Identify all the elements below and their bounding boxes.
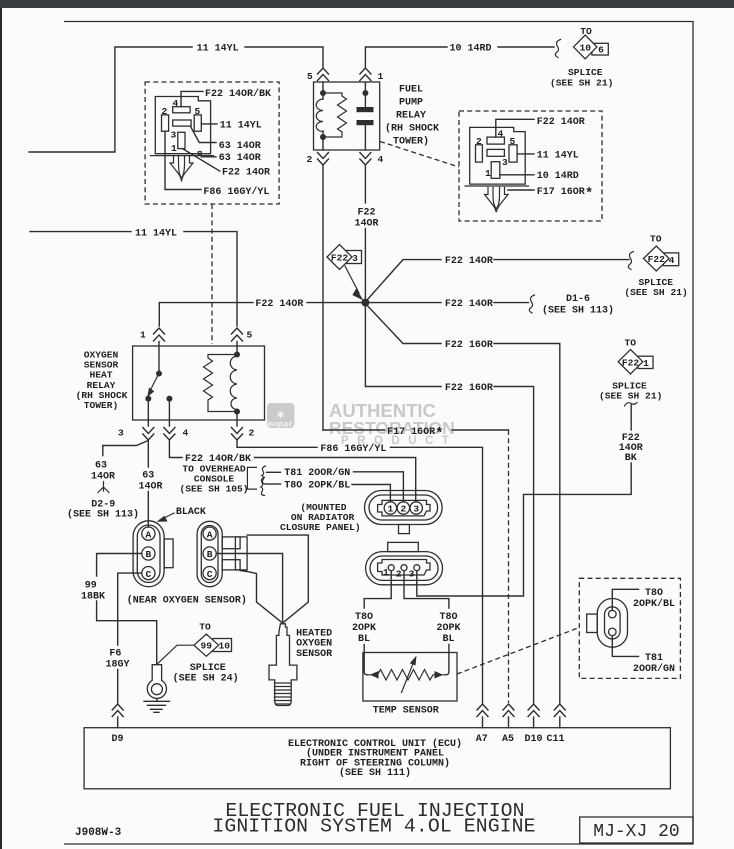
svg-text:mopar: mopar <box>268 420 294 430</box>
oxygen relay pin 2 chevron <box>232 428 243 441</box>
oxygen sensor connector pin B <box>203 547 216 560</box>
radiator sensor connector shell <box>366 552 443 585</box>
svg-text:1: 1 <box>383 567 389 578</box>
temp connector wire T80 <box>612 589 638 610</box>
fuel pump relay contact to box bottom <box>364 125 366 150</box>
wire pin3 branch to D2-9 <box>103 441 149 456</box>
oxygen sensor connector pin C <box>203 567 216 580</box>
svg-text:63: 63 <box>142 471 154 482</box>
svg-text:(SEE SH 21): (SEE SH 21) <box>624 287 687 298</box>
svg-text:11 14YL: 11 14YL <box>197 44 239 55</box>
splice F22-4 squiggle <box>628 252 633 270</box>
overhead console squiggle 2 <box>261 478 265 496</box>
radiator sensor pin 2 <box>401 565 407 571</box>
box1 pin 2 terminal <box>162 115 169 131</box>
wire sensor B <box>216 554 282 622</box>
svg-text:3: 3 <box>409 569 415 580</box>
svg-text:4: 4 <box>378 154 384 165</box>
svg-text:TOWER): TOWER) <box>393 136 429 148</box>
svg-text:BL: BL <box>358 634 370 645</box>
svg-text:2: 2 <box>307 154 313 165</box>
watermark AUTHENTIC RESTORATION PRODUCT <box>329 400 457 447</box>
fuel pump relay coil to box bottom <box>322 131 324 150</box>
svg-text:F6: F6 <box>109 649 121 660</box>
svg-text:A7: A7 <box>476 734 488 745</box>
svg-text:F22 14OR: F22 14OR <box>255 299 303 310</box>
temp connector shell <box>597 599 627 648</box>
wire to D1-6 <box>494 302 529 304</box>
box1 wire to F86 16GY/YL <box>165 131 201 189</box>
splice F22-3 diamond <box>327 245 352 270</box>
wire T80 to radiator pin 1 <box>352 485 390 502</box>
oxygen sensor connector pin A <box>203 527 216 540</box>
svg-text:T8O: T8O <box>355 612 373 623</box>
fuel pump relay resistor branch <box>323 93 347 137</box>
splice F22-3 box 3 <box>346 251 362 264</box>
box1 wire to 63 140R second <box>201 156 216 158</box>
svg-text:4: 4 <box>669 255 675 266</box>
temp connector dashed box <box>579 578 680 678</box>
svg-text:(RH SHOCK: (RH SHOCK <box>385 123 439 135</box>
svg-text:A: A <box>146 529 152 540</box>
svg-text:TO: TO <box>199 622 211 633</box>
fuel pump relay pin 1 chevron <box>360 68 371 81</box>
oxygen relay box <box>133 346 265 420</box>
svg-text:1: 1 <box>485 168 491 179</box>
fuel pump relay contact bar 1 <box>357 107 374 112</box>
wire F22 140R left of junction <box>159 302 253 304</box>
svg-text:SPLICE: SPLICE <box>190 663 226 674</box>
svg-text:T81: T81 <box>645 653 663 664</box>
svg-text:4: 4 <box>498 129 504 140</box>
svg-text:RELAY: RELAY <box>396 111 426 122</box>
wire T80 20PK/BL dash <box>267 483 281 485</box>
wire F17 160R* horizontal <box>323 429 385 431</box>
svg-text:F22: F22 <box>357 207 375 218</box>
oxygen relay pin4 stub <box>168 400 170 426</box>
oxygen sensor connector shell (right) <box>197 521 222 586</box>
splice F22-1 diamond <box>618 350 643 375</box>
radiator sensor pin 1 <box>388 565 394 571</box>
splice 99-10 lead to ring terminal <box>158 645 195 664</box>
wire junction down <box>365 306 441 387</box>
box1 wire to F22 140R <box>183 149 220 172</box>
oxygen relay pin 3 chevron <box>143 428 154 441</box>
svg-text:TO: TO <box>625 338 637 349</box>
wire D10 into ECU <box>533 717 535 728</box>
oxygen relay coil feed <box>236 342 238 357</box>
wire F22 140R BK down and left <box>417 463 631 596</box>
splice 10-6 diamond <box>574 35 597 59</box>
near oxygen sensor pin C <box>142 567 155 580</box>
ground symbol <box>144 699 170 713</box>
splice 99-10 diamond <box>194 634 219 656</box>
radiator sensor pin 3 <box>414 565 420 571</box>
splice F22-3 arrow to junction <box>345 266 359 293</box>
fuel pump relay coil bottom junction <box>320 134 326 140</box>
wire label to junction <box>307 302 362 304</box>
radiator harness tab <box>399 525 410 534</box>
svg-text:10: 10 <box>219 641 231 652</box>
relay connector body (box2) <box>470 127 526 184</box>
svg-text:63 14OR: 63 14OR <box>219 141 261 152</box>
radiator harness pin 1 <box>384 502 396 514</box>
svg-text:F22 14OR: F22 14OR <box>445 256 493 267</box>
fuel pump relay pin 2 chevron <box>318 153 329 166</box>
svg-text:4: 4 <box>183 428 189 439</box>
radiator sensor connector key <box>378 560 430 576</box>
svg-text:(SEE SH 113): (SEE SH 113) <box>542 304 614 316</box>
near oxygen sensor connector tab <box>164 539 173 568</box>
wire T81 to radiator pin 2 <box>354 472 404 501</box>
wire F86 16GY/YL to A7 drop <box>391 447 483 703</box>
box2 center terminal <box>487 149 504 156</box>
temp connector pin 2 <box>609 628 617 636</box>
svg-text:BL: BL <box>443 634 455 645</box>
svg-text:F22 14OR: F22 14OR <box>445 299 493 310</box>
box1 mounting clip <box>170 156 193 181</box>
box2 bottom flange <box>465 185 529 187</box>
D10 chevron <box>528 704 539 717</box>
top dark browser bar <box>0 0 734 8</box>
fuel pump relay pin 4 chevron <box>360 153 371 166</box>
svg-text:2OOR/GN: 2OOR/GN <box>633 663 675 675</box>
splice 99-10 box 10 <box>213 639 232 652</box>
relay connector body (box1) <box>155 97 210 154</box>
box1 bottom flange <box>151 155 214 157</box>
svg-text:99: 99 <box>201 641 213 652</box>
main junction node <box>361 299 369 307</box>
svg-text:3: 3 <box>118 428 124 439</box>
wire 11 14YL to fuel pump relay pin 5 <box>245 47 323 67</box>
wire F22 160R to D10 drop <box>494 387 534 704</box>
dashed lead to temp sensor connector box <box>457 628 579 675</box>
radiator harness pin 3 <box>410 502 422 514</box>
svg-text:(SEE SH 24): (SEE SH 24) <box>173 672 239 684</box>
fuel pump relay coil <box>316 99 323 132</box>
svg-text:14OR: 14OR <box>354 218 378 229</box>
svg-text:B: B <box>207 549 213 560</box>
fuel pump relay pin 1 wire to 10 14RD <box>365 47 447 67</box>
svg-text:IGNITION SYSTEM 4.OL ENGINE: IGNITION SYSTEM 4.OL ENGINE <box>212 816 535 838</box>
svg-text:A5: A5 <box>502 734 514 745</box>
overhead console bracket <box>247 467 256 489</box>
temp connector tab <box>587 614 598 632</box>
svg-text:(SEE SH 21): (SEE SH 21) <box>550 77 613 88</box>
box1 center terminal <box>173 120 191 126</box>
wire A7 into ECU <box>482 717 484 728</box>
sheet box MJ-XJ 20 <box>580 817 693 843</box>
box1 pin 5 terminal <box>194 115 201 131</box>
svg-text:T81 2OOR/GN: T81 2OOR/GN <box>284 467 350 479</box>
svg-text:5: 5 <box>247 330 253 341</box>
wire D9 into ECU <box>117 717 119 728</box>
connector box 2 (dashed) <box>459 111 602 221</box>
wire F6 18GY to D9 <box>117 670 119 704</box>
svg-text:TO: TO <box>580 26 592 37</box>
watermark mopar logo box <box>267 403 295 430</box>
fuel pump relay contact junction <box>362 90 368 96</box>
wire F17 160R* to A5 dashed drop <box>452 429 509 431</box>
svg-text:D9: D9 <box>112 734 124 745</box>
svg-text:TO: TO <box>650 234 662 245</box>
temp sensor box <box>363 653 457 702</box>
fuel pump relay coil branch <box>322 82 324 99</box>
svg-text:3: 3 <box>171 130 177 141</box>
box1 wire to F22 140R/BK <box>181 91 203 106</box>
ECU box <box>84 728 670 789</box>
svg-text:PUMP: PUMP <box>399 98 423 109</box>
svg-text:99: 99 <box>85 581 97 592</box>
svg-text:11 14YL: 11 14YL <box>135 229 177 240</box>
wire sensor A <box>247 535 308 622</box>
svg-text:2OPK: 2OPK <box>437 623 461 634</box>
splice F22-1 squiggle <box>625 403 638 407</box>
near oxygen sensor connector shell <box>133 521 164 587</box>
svg-text:18BK: 18BK <box>81 592 105 603</box>
svg-text:11 14YL: 11 14YL <box>220 120 262 131</box>
svg-text:C: C <box>207 569 213 580</box>
svg-text:5: 5 <box>307 71 313 82</box>
dashed link fuel pump relay to box2 <box>380 142 459 168</box>
svg-text:TEMP SENSOR: TEMP SENSOR <box>373 706 439 717</box>
svg-text:63 14OR: 63 14OR <box>219 153 261 164</box>
wire pin B to 99 18BK <box>97 554 142 577</box>
svg-text:T8O: T8O <box>645 588 663 599</box>
svg-text:F86 16GY/YL: F86 16GY/YL <box>320 443 386 455</box>
svg-text:SENSOR: SENSOR <box>296 649 332 660</box>
wire sensor pin1 to temp sensor <box>364 571 391 608</box>
BLACK arrow <box>163 513 174 519</box>
svg-text:F22 14OR: F22 14OR <box>537 117 585 128</box>
wire sensor pin2 to temp sensor <box>404 571 449 608</box>
oxygen relay pin 1 chevron <box>154 328 165 341</box>
D2-9 fork symbol <box>98 482 109 493</box>
svg-text:F22 14OR/BK: F22 14OR/BK <box>205 88 271 100</box>
temp connector pin 1 <box>609 610 617 618</box>
svg-text:F22: F22 <box>648 254 666 265</box>
svg-text:(SEE SH 111): (SEE SH 111) <box>339 767 411 779</box>
box1 pin 4 terminal <box>173 107 190 113</box>
splice F22-1 box 1 <box>638 356 653 368</box>
box2 wire to 10 14RD <box>500 174 534 176</box>
wire into temp sensor right <box>446 645 449 675</box>
wire 63 140R to pin A <box>147 492 149 528</box>
svg-text:3: 3 <box>413 504 419 515</box>
box2 wire to F17 160R <box>508 189 534 191</box>
wire T81 200R/GN dash <box>267 471 281 473</box>
oxygen relay switch feed <box>158 342 160 372</box>
dashed link box1 to oxygen relay <box>211 204 213 344</box>
wire oxygen relay pin1 riser <box>158 303 160 326</box>
oxygen relay switch top contact <box>156 371 162 377</box>
oxygen relay switch pin3 contact <box>145 396 151 402</box>
svg-text:3: 3 <box>352 253 358 264</box>
svg-text:C: C <box>146 569 152 580</box>
box2 wire to 11 14YL <box>517 153 534 155</box>
oxygen relay switch pin4 contact <box>166 396 172 402</box>
C11 chevron <box>554 704 565 717</box>
temp sensor arrow tips <box>370 671 379 679</box>
wire sensor pin3 right <box>416 571 418 596</box>
svg-text:2OPK/BL: 2OPK/BL <box>633 598 675 610</box>
svg-text:T8O 2OPK/BL: T8O 2OPK/BL <box>284 479 350 491</box>
wire fuel pump pin4 to label <box>364 166 366 204</box>
svg-text:(NEAR OXYGEN SENSOR): (NEAR OXYGEN SENSOR) <box>127 595 247 607</box>
oxygen relay coil <box>230 356 237 410</box>
svg-text:CLOSURE PANEL): CLOSURE PANEL) <box>280 522 361 533</box>
splice 10-6 box 6 <box>592 43 608 55</box>
wire F17 from fuel pump relay pin 2 down <box>322 166 324 431</box>
oxygen relay resistor loop <box>204 355 238 412</box>
svg-text:F22 16OR: F22 16OR <box>445 383 493 394</box>
svg-text:14OR: 14OR <box>139 482 163 493</box>
D9 chevron <box>112 704 123 717</box>
svg-text:TOWER): TOWER) <box>84 400 119 411</box>
connector box 1 (dashed) <box>145 82 279 204</box>
svg-text:C11: C11 <box>547 734 565 745</box>
svg-text:D10: D10 <box>525 734 543 745</box>
splice F22-4 box 4 <box>663 253 678 266</box>
wire F22 140R BK from splice down <box>630 405 632 430</box>
svg-text:F22 16OR: F22 16OR <box>445 340 493 351</box>
box2 pin 4 terminal <box>487 137 504 144</box>
svg-text:D1-6: D1-6 <box>566 294 590 305</box>
radiator harness connector shell <box>365 491 443 525</box>
fuel pump relay box <box>314 82 380 150</box>
oxygen relay pin2 stub <box>236 412 238 427</box>
fuel pump relay contact bar 2 <box>357 120 374 125</box>
temp connector wire T81 <box>612 636 638 657</box>
svg-text:J908W-3: J908W-3 <box>75 827 122 839</box>
radiator sensor connector tab <box>388 542 419 551</box>
overhead console squiggle 1 <box>262 466 266 484</box>
svg-text:1: 1 <box>140 330 146 341</box>
near oxygen sensor pin B <box>142 547 155 560</box>
splice F22-4 diamond <box>644 246 670 271</box>
fuel pump relay contact branch <box>364 82 366 107</box>
box1 wire to 63 140R first <box>190 126 216 142</box>
wire F22 140R right of junction <box>369 302 442 304</box>
oxygen relay coil top junction <box>234 352 240 358</box>
box2 pin 2 terminal <box>476 145 483 162</box>
temp sensor resistor <box>368 670 446 681</box>
svg-text:1: 1 <box>378 71 384 82</box>
wire 11 14YL to oxygen relay pin 5 <box>184 232 237 326</box>
wire label to junction <box>364 229 366 303</box>
svg-text:2: 2 <box>249 428 255 439</box>
D1-6 squiggle <box>529 295 534 313</box>
box1 lower-right pin stub <box>198 152 201 155</box>
radiator harness pin 2 <box>397 502 409 514</box>
wire pin3 down to connector A <box>147 441 149 468</box>
wire pin4 to F22 140R/BK <box>169 441 182 458</box>
box2 wire to F22 140R <box>496 119 534 137</box>
wire F22 140R/BK to radiator pin 3 <box>255 458 416 502</box>
A5 chevron <box>503 704 514 717</box>
box2 mounting clip <box>485 188 509 212</box>
box1 pin 1 terminal <box>178 132 185 148</box>
svg-text:F22: F22 <box>622 357 640 368</box>
svg-text:1: 1 <box>643 358 649 369</box>
oxygen relay switch blade <box>151 376 158 390</box>
svg-text:(SEE SH 113): (SEE SH 113) <box>67 509 139 521</box>
box2 pin 5 terminal <box>509 145 517 162</box>
wire pin2 to F86 16GY/YL <box>237 441 317 448</box>
oxygen relay pin 5 chevron <box>232 328 243 341</box>
wire F22 160R to C11 drop <box>494 344 560 704</box>
svg-text:11 14YL: 11 14YL <box>537 150 579 161</box>
splice 10-6 squiggle <box>555 40 560 58</box>
svg-text:(SEE SH 21): (SEE SH 21) <box>599 391 662 402</box>
box2 pin 1 terminal <box>491 162 500 179</box>
wire 11 14YL (top feed) <box>29 47 192 152</box>
heated oxygen sensor body <box>269 624 297 706</box>
ring terminal <box>147 665 166 699</box>
wire C11 into ECU <box>559 717 561 728</box>
heated oxygen sensor thread hatching <box>274 683 291 704</box>
fuel pump relay pin 5 chevron <box>318 68 329 81</box>
svg-text:T8O: T8O <box>440 612 458 623</box>
svg-text:B: B <box>146 549 152 560</box>
temp sensor variable arrow <box>402 661 415 693</box>
wire into temp sensor left <box>364 645 367 675</box>
svg-text:F22: F22 <box>331 253 349 264</box>
svg-text:14OR: 14OR <box>91 472 115 483</box>
svg-text:F86 16GY/YL: F86 16GY/YL <box>203 186 269 198</box>
wire to splice F22-4 <box>494 259 629 261</box>
svg-text:10: 10 <box>579 43 591 54</box>
oxygen sensor connector tabs <box>222 537 240 549</box>
svg-text:2: 2 <box>396 569 402 580</box>
svg-text:2OPK: 2OPK <box>352 623 376 634</box>
svg-text:A: A <box>207 529 213 540</box>
svg-text:1: 1 <box>171 143 177 154</box>
svg-text:FUEL: FUEL <box>399 85 423 96</box>
wire 11 14YL second feed <box>30 231 131 233</box>
svg-text:10 14RD: 10 14RD <box>450 44 492 55</box>
box1 wire to 11 14YL <box>201 123 217 125</box>
wire A5 into ECU <box>508 717 510 728</box>
svg-text:10 14RD: 10 14RD <box>537 171 579 182</box>
svg-text:(SEE SH 105): (SEE SH 105) <box>179 484 248 495</box>
svg-text:BLACK: BLACK <box>176 507 206 518</box>
svg-text:6: 6 <box>598 45 604 56</box>
oxygen relay coil bottom junction <box>234 409 240 415</box>
wire sensor C <box>240 571 282 623</box>
wire 10 14RD to splice <box>498 46 554 48</box>
svg-text:3: 3 <box>502 157 508 168</box>
oxygen relay pin3 stub <box>147 400 149 426</box>
oxygen relay pin 4 chevron <box>164 428 175 441</box>
wire F22 160R diagonal down to C11 <box>368 306 442 344</box>
svg-text:1: 1 <box>388 504 394 515</box>
wire F22 140R diagonal up to splice F22-4 <box>368 260 442 300</box>
fuel pump relay coil top junction <box>320 90 326 96</box>
svg-text:2: 2 <box>401 504 407 515</box>
svg-text:63: 63 <box>95 461 107 472</box>
radiator harness connector key <box>378 500 430 516</box>
A7 chevron <box>477 704 488 717</box>
near oxygen sensor pin A <box>142 527 155 540</box>
wire pin C to F6 18GY <box>118 573 142 645</box>
svg-text:MJ-XJ 20: MJ-XJ 20 <box>593 822 679 842</box>
wire 99 18BK to ring terminal <box>97 601 157 665</box>
svg-text:F22 14OR: F22 14OR <box>222 167 270 178</box>
left dark page edge <box>0 8 2 849</box>
